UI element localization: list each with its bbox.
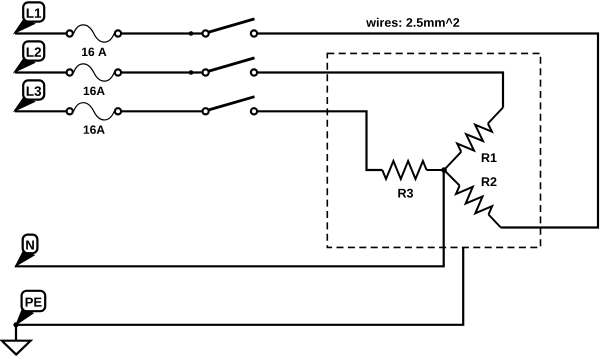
label PE [16,291,45,325]
wire star point to N [15,170,444,266]
resistor R1 [444,108,503,171]
junction star point [441,167,447,173]
junction PE node [13,322,18,327]
wire PE to enclosure [16,247,463,324]
ground [2,325,31,355]
wire L3 to R3 left terminal [258,111,383,170]
text wire gauge note [366,18,459,27]
wire L1 to R2 outer terminal [258,34,598,228]
fuse F1 16 A [15,25,121,56]
dashed enclosure box [327,53,540,247]
switch S3 [122,97,257,115]
resistor R3 [382,161,444,198]
wire L2 to R1 outer terminal [258,73,503,108]
label L3 [14,80,44,111]
fuse F2 16A [15,64,121,95]
label N [16,235,38,267]
fuse F3 16A [15,103,121,134]
switch S2 [122,58,257,76]
resistor R2 [444,170,501,228]
label L1 [14,2,44,33]
switch S1 [122,19,257,37]
label L2 [14,41,44,72]
